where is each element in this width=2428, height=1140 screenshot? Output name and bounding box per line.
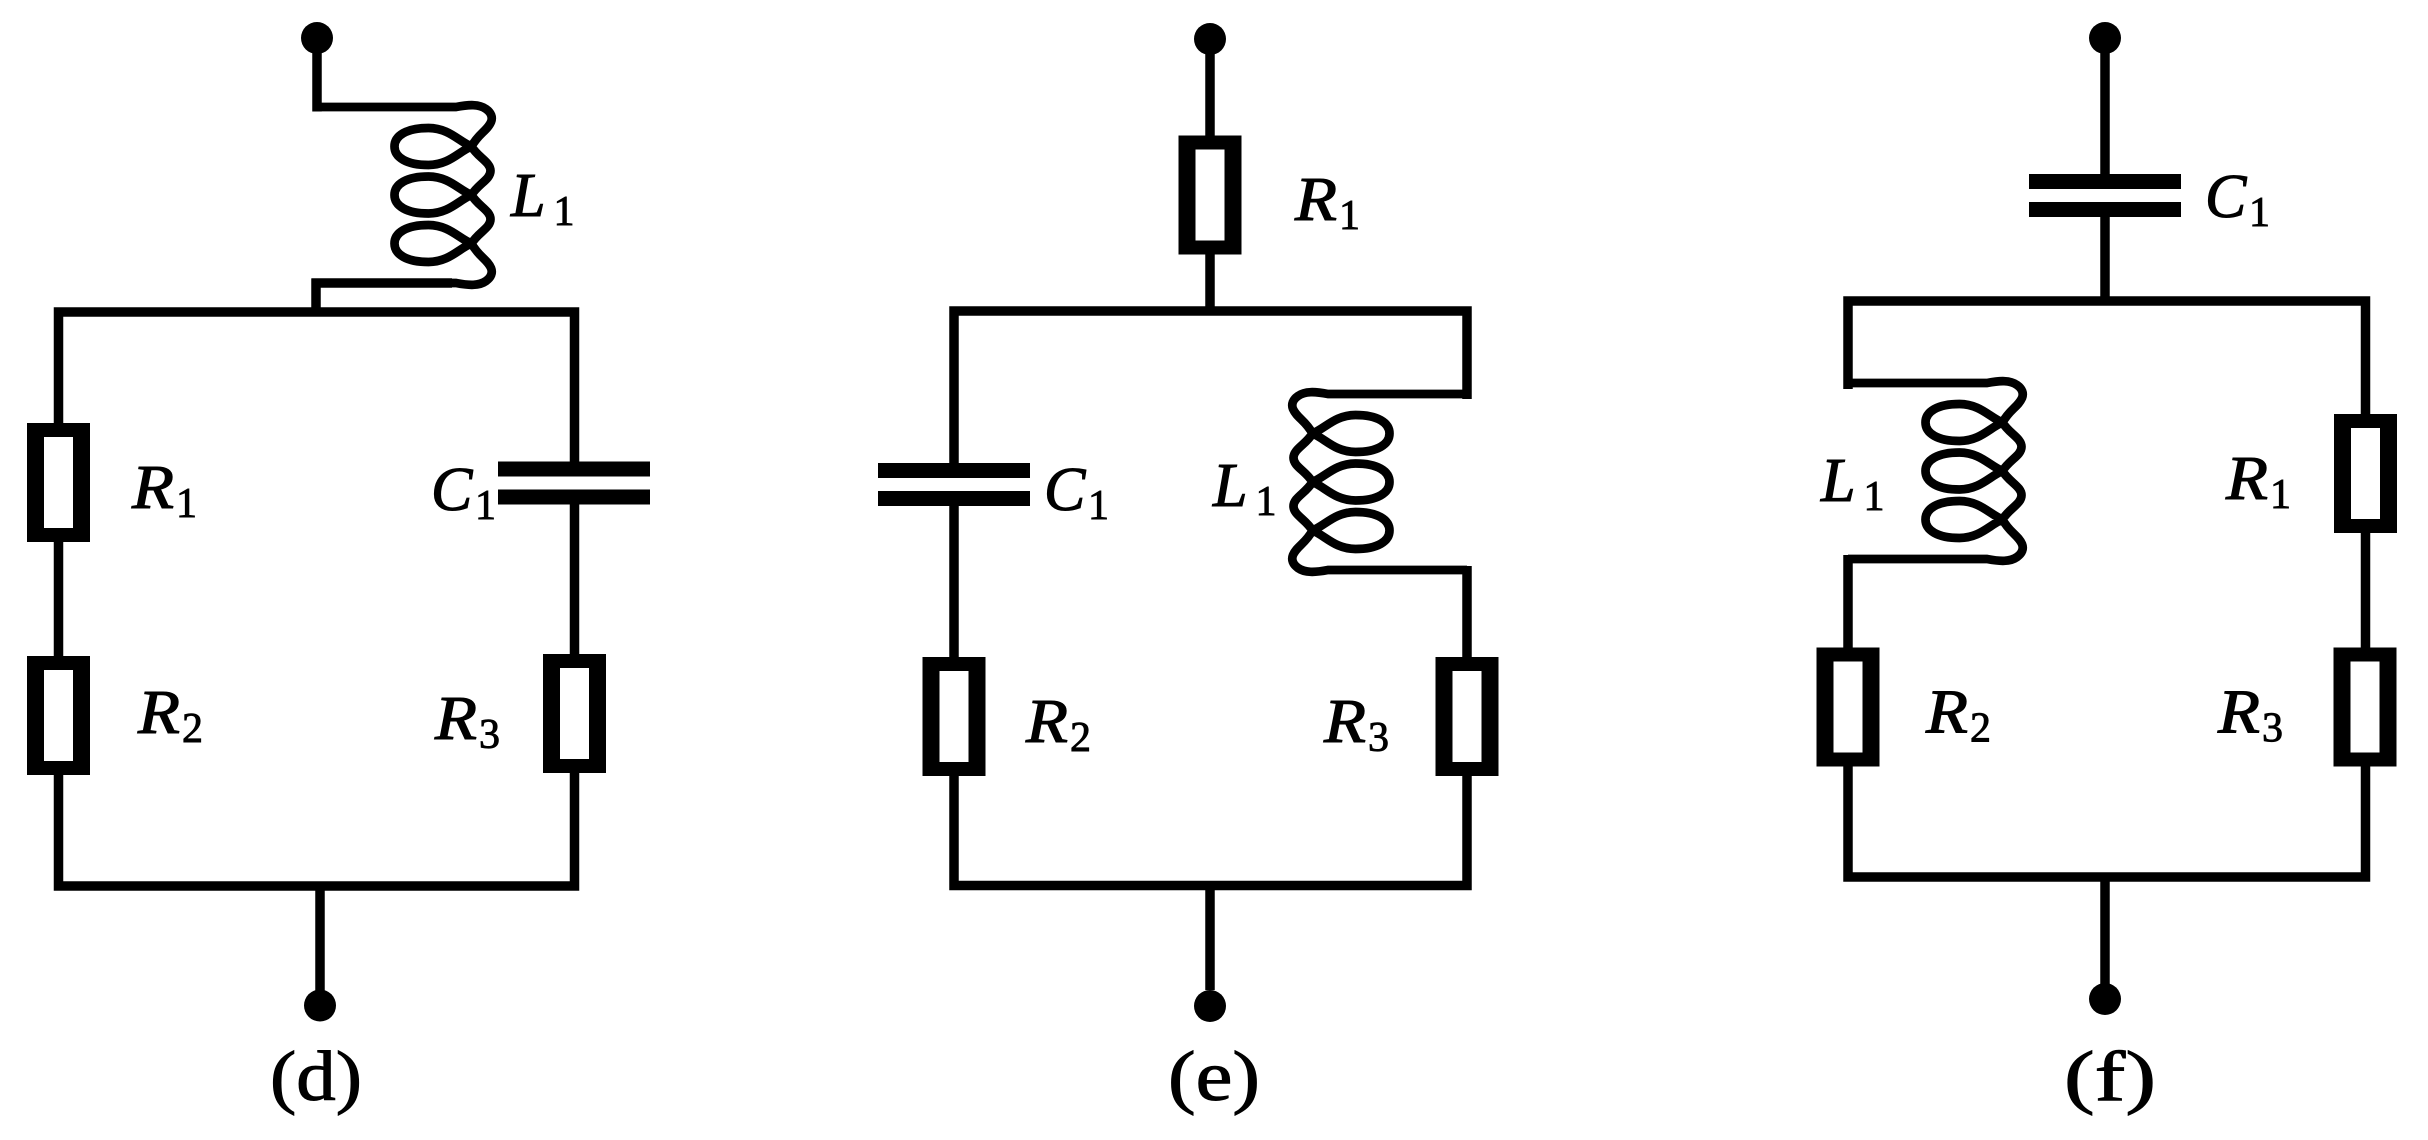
svg-text:R: R	[1925, 679, 1968, 747]
wire (f) top terminal to C1	[2100, 49, 2110, 176]
svg-text:1: 1	[176, 481, 197, 527]
svg-text:C: C	[2205, 163, 2247, 231]
resistor R3 (e)	[1436, 657, 1499, 776]
mask for L1 (f) in left wire	[1841, 389, 1855, 555]
svg-text:1: 1	[1339, 193, 1360, 239]
capacitor C1 (f)	[2029, 174, 2181, 217]
svg-text:(e): (e)	[1168, 1038, 1260, 1116]
node: circuit (f) bottom terminal	[2089, 983, 2121, 1015]
svg-text:3: 3	[1368, 715, 1389, 761]
svg-text:2: 2	[1070, 715, 1091, 761]
svg-text:1: 1	[1256, 479, 1277, 525]
resistor R3 (f)	[2334, 648, 2397, 767]
svg-text:C: C	[1044, 456, 1086, 524]
svg-text:R: R	[131, 454, 174, 522]
svg-text:L: L	[510, 162, 545, 230]
wire loop (f): top/left/right/bottom	[1848, 301, 2366, 877]
wire (d) bottom stub	[315, 886, 325, 991]
svg-text:R: R	[1323, 688, 1366, 756]
svg-text:2: 2	[1970, 706, 1991, 752]
node: circuit (d) bottom terminal	[304, 990, 336, 1022]
resistor R1 (e)	[1179, 136, 1242, 255]
node: circuit (e) top terminal	[1194, 23, 1226, 55]
wire (e) R1 to box top	[1205, 250, 1215, 315]
resistor R2 (d)	[27, 656, 90, 775]
svg-text:3: 3	[2262, 706, 2283, 752]
svg-text:R: R	[2217, 679, 2260, 747]
svg-text:1: 1	[475, 483, 496, 529]
svg-text:L: L	[1212, 452, 1247, 520]
resistor R1 (d)	[27, 423, 90, 542]
capacitor C1 (d)	[498, 462, 650, 505]
svg-text:R: R	[434, 685, 477, 753]
wire loop (e): top/left/right/bottom	[954, 311, 1467, 886]
wire (f) C1 to box top	[2100, 215, 2110, 305]
wire (e) top terminal to R1	[1205, 50, 1215, 140]
inductor L1 (e)	[1292, 392, 1467, 572]
node: circuit (f) top terminal	[2089, 22, 2121, 54]
resistor R2 (f)	[1817, 648, 1880, 767]
svg-text:(d): (d)	[270, 1038, 362, 1116]
svg-text:1: 1	[1864, 474, 1885, 520]
svg-text:R: R	[137, 679, 180, 747]
svg-text:2: 2	[182, 706, 203, 752]
resistor R1 (f)	[2334, 414, 2397, 533]
svg-text:R: R	[1294, 166, 1337, 234]
svg-text:R: R	[2225, 445, 2268, 513]
capacitor C1 (e)	[878, 463, 1030, 506]
inductor L1 (d)	[317, 105, 492, 285]
wire (f) bottom stub	[2100, 877, 2110, 984]
wire (e) bottom stub	[1205, 886, 1215, 991]
svg-text:C: C	[431, 456, 473, 524]
svg-text:R: R	[1025, 688, 1068, 756]
wire (d) L1 exit down to box	[311, 279, 321, 317]
node: circuit (d) top terminal	[301, 22, 333, 54]
wire loop (d): top/left/right/bottom	[59, 312, 575, 886]
resistor R2 (e)	[923, 657, 986, 776]
inductor L1 (f)	[1848, 381, 2023, 561]
svg-text:(f): (f)	[2064, 1038, 2156, 1116]
wire (d) L1 exit horizontal	[312, 278, 453, 288]
svg-text:3: 3	[479, 712, 500, 758]
resistor R3 (d)	[543, 654, 606, 773]
svg-text:1: 1	[554, 189, 575, 235]
node: circuit (e) bottom terminal	[1194, 990, 1226, 1022]
svg-text:1: 1	[1088, 483, 1109, 529]
svg-text:1: 1	[2270, 472, 2291, 518]
svg-text:L: L	[1820, 447, 1855, 515]
wire (d) top terminal to inductor entry	[312, 49, 322, 112]
mask for L1 (e) in right wire	[1460, 399, 1474, 566]
svg-text:1: 1	[2249, 190, 2270, 236]
